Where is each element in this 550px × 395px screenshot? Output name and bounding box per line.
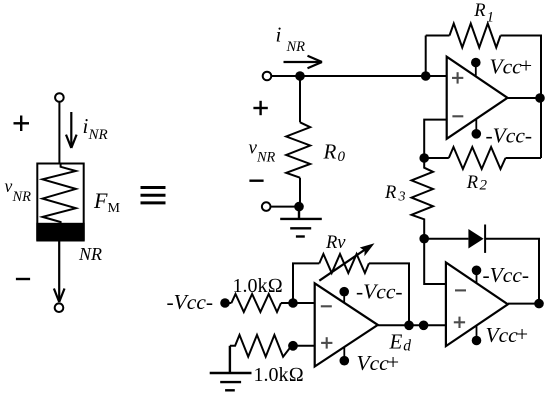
wire to minus node [281,302,315,304]
Vcc+ dot U2 [340,347,350,365]
variable resistor Rv [319,254,369,273]
label R1 [473,1,494,26]
ground symbol (lower left) [210,346,252,391]
svg-text:1.0kΩ: 1.0kΩ [254,364,304,386]
label R2 [466,173,488,194]
node Ed junction 2 [419,321,429,331]
node U3 output junction [534,299,544,309]
arrow through Rv [319,243,374,280]
svg-text:R: R [473,1,485,21]
wire U1 minus input [424,120,447,158]
label -Vcc- U3 [483,263,530,287]
svg-text:F: F [93,188,108,213]
minus sign (left) [16,278,30,280]
current arrow (top, pointing right) [284,56,323,68]
label R0 [323,140,346,166]
wire input node to op-amp U1 + [271,75,446,77]
wire node to R2 [424,157,449,159]
wire to plus node [292,345,315,347]
svg-text:NR: NR [256,149,276,165]
plus sign (left) [14,116,30,132]
svg-text:Vcc: Vcc [357,351,390,375]
-Vcc- dot U1 [472,119,482,139]
label v_NR (right) [249,138,276,166]
op-amp U2 [315,283,378,366]
svg-text:NR: NR [78,244,102,264]
node U2 plus junction [288,341,298,351]
node U1 output junction [535,93,545,103]
label Rv [325,233,346,253]
wire to R1 [426,35,450,37]
label NR (below box) [78,244,102,264]
wire Rv right down to Ed node [369,263,409,325]
wire left vertical to Rv [293,263,319,303]
svg-text:E: E [389,330,403,354]
NR box outline [37,164,83,241]
resistor 1.0k (top) [231,294,281,312]
diode D1 [468,225,485,253]
node ground junction [294,202,304,212]
svg-text:-Vcc-: -Vcc- [483,263,530,287]
resistor R3 [412,158,434,239]
node R2/R3 junction [419,153,429,163]
plus sign (v_NR right) [253,101,267,115]
resistor R0 [286,122,310,177]
-Vcc- dot U3 [472,266,482,284]
wire junction to diode [424,238,468,240]
wire to 1.0k resistor 1 [225,302,231,304]
label R3 [384,183,406,205]
svg-text:3: 3 [398,190,406,205]
label 1.0k top [233,275,283,297]
label 1.0k bottom [254,364,304,386]
label Vcc+ U3 [486,322,529,347]
resistor R2 [449,147,506,169]
svg-text:M: M [108,201,121,216]
svg-text:-Vcc-: -Vcc- [486,124,533,148]
label -Vcc- U1 [486,124,533,148]
input terminal open circle [263,72,272,81]
svg-text:Vcc: Vcc [490,54,523,78]
terminal top-left open circle [55,93,64,102]
label i_NR (left) [83,114,108,143]
svg-text:0: 0 [338,149,346,165]
wire U3 output [508,303,539,305]
svg-text:1.0kΩ: 1.0kΩ [233,275,283,297]
label Vcc+ U1 [490,53,533,78]
-Vcc- dot U2 [339,287,349,303]
zigzag resistor inside box [43,164,76,224]
svg-text:v: v [5,176,13,196]
Vcc+ dot U3 [472,326,482,346]
equivalence symbol [141,188,166,203]
wire U2 output to U3 plus (Ed node) [378,324,446,326]
node U1 + junction [421,71,431,81]
svg-text:+: + [516,322,528,346]
wire node down to R0 [299,76,301,122]
wire diode to right rail down to U3 output [485,239,539,304]
label F_M [93,188,121,216]
svg-text:2: 2 [480,178,488,194]
ground terminal open circle [262,202,271,211]
wire box to bottom arrow [54,241,65,303]
label i_NR (top) [276,23,306,56]
ground symbol (under R0) [280,207,322,237]
wire diode node down to U3 minus [424,239,446,284]
black mass block [36,223,84,241]
Vcc+ dot U1 [471,58,481,76]
node Ed junction 1 [404,321,414,331]
op-amp U1 [447,57,508,139]
wire U1 output [508,97,542,99]
current arrow i_NR (left) [66,112,77,148]
resistor R1 [450,24,501,48]
label Ed [389,330,412,355]
node input junction [295,71,305,81]
svg-text:d: d [403,338,411,355]
label Vcc+ U2 [357,350,400,375]
svg-text:-Vcc-: -Vcc- [167,290,214,314]
minus sign (v_NR right) [249,179,263,181]
wire feedback up from + node [425,36,427,77]
label v_NR (left) [5,176,32,205]
svg-text:-Vcc-: -Vcc- [356,280,403,304]
resistor 1.0k (bottom) [230,335,292,357]
wire terminal to ground node [271,206,301,208]
wire R0 to ground node [299,178,301,207]
svg-text:R: R [466,173,478,193]
svg-text:R: R [323,140,337,164]
label -Vcc- (far left) [167,290,214,314]
label -Vcc- U2 [356,280,403,304]
svg-text:Rv: Rv [325,233,346,253]
svg-text:NR: NR [286,39,306,55]
svg-text:+: + [520,53,532,77]
node diode junction [419,234,429,244]
svg-text:Vcc: Vcc [486,323,519,347]
svg-text:R: R [384,183,396,203]
op-amp U3 [446,263,508,347]
wire top terminal to box [58,102,60,164]
svg-text:NR: NR [88,127,108,143]
svg-text:1: 1 [487,10,495,26]
wire R1 to right rail [501,36,542,159]
svg-text:i: i [276,23,282,47]
terminal dot -Vcc- [220,298,230,308]
svg-text:NR: NR [12,189,32,205]
node U2 minus junction [288,298,298,308]
terminal bottom-left open circle [55,303,64,312]
wire R2 to right rail [506,157,542,159]
